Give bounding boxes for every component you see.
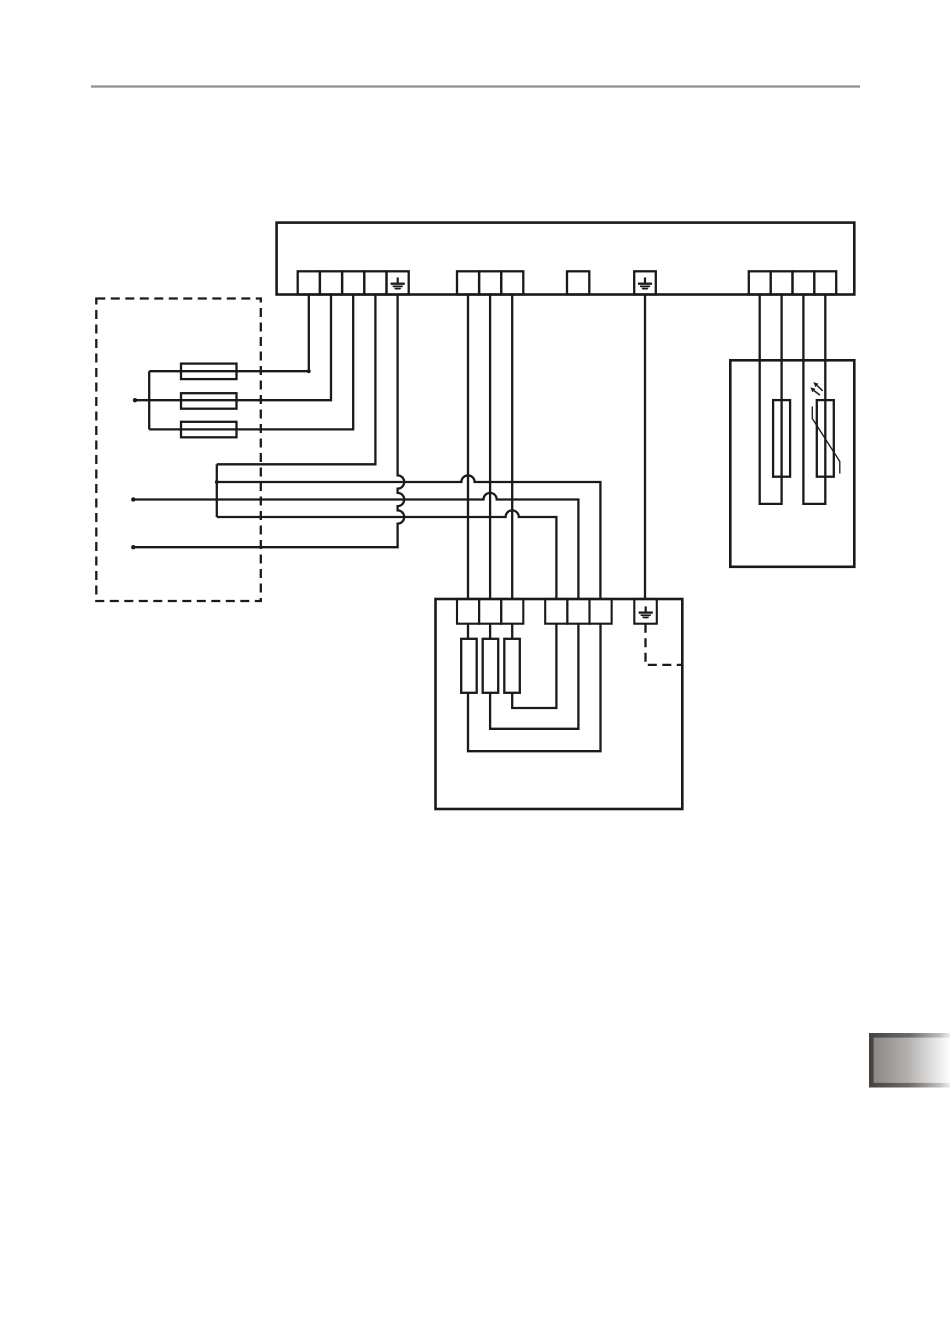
terminal 13 <box>793 271 815 294</box>
header rule <box>91 85 860 87</box>
motor unit enclosure <box>436 599 683 809</box>
node L input <box>133 398 137 402</box>
ground <box>639 606 653 618</box>
terminal M2 <box>479 599 501 624</box>
wire winding2 return <box>490 624 578 729</box>
terminal 2 <box>320 271 342 294</box>
wire chassis ground dashed <box>646 624 683 665</box>
arrow 2 <box>810 387 820 395</box>
wire terminal4 to bus bracket <box>217 295 376 465</box>
wire bracket vertical <box>216 464 218 517</box>
wire terminal1 to fuse F1 <box>149 295 309 372</box>
winding W2 <box>483 639 499 693</box>
terminal 7 <box>479 271 501 294</box>
ground <box>638 278 652 290</box>
node at fuse F1 corner <box>307 369 311 373</box>
terminal 3 <box>342 271 364 294</box>
node bus line 1 <box>215 480 219 484</box>
terminal M6 <box>590 599 612 624</box>
node N input <box>131 545 135 549</box>
fuse F3 <box>181 422 237 438</box>
fuse F1 <box>181 364 237 380</box>
wire winding1 return <box>468 624 601 752</box>
terminal 11 <box>749 271 771 294</box>
wire element stub 3 <box>511 624 513 639</box>
terminal M1 <box>457 599 479 624</box>
terminal M5 <box>567 599 589 624</box>
control board outline <box>277 223 855 295</box>
terminal M-PE <box>634 599 657 624</box>
terminal 12 <box>771 271 793 294</box>
terminal 5 PE <box>387 271 409 294</box>
wire terminal3 to fuse F3 <box>149 295 353 430</box>
wire winding3 return <box>512 624 556 708</box>
dashed enclosure (supply side) <box>96 299 260 602</box>
terminal M4 <box>545 599 567 624</box>
wire fuse common link <box>148 371 150 429</box>
wire element stub 1 <box>467 624 469 639</box>
terminal 6 <box>457 271 479 294</box>
terminal 9 <box>567 271 589 294</box>
heater element E1 <box>773 400 790 477</box>
winding W1 <box>461 639 477 693</box>
terminal M3 <box>501 599 523 624</box>
wire bus line 1 <box>217 475 601 599</box>
terminal 1 <box>298 271 320 294</box>
wire heater loop 2 <box>803 295 825 504</box>
wire terminal8 down <box>511 295 513 600</box>
terminal 10 PE <box>634 271 656 294</box>
terminal 4 <box>364 271 386 294</box>
wire terminal2 to fuse F2 <box>135 295 331 401</box>
heater element E2 <box>817 400 834 477</box>
heater unit enclosure <box>730 360 854 567</box>
wire bus line 2 <box>133 493 578 599</box>
terminal 14 <box>814 271 836 294</box>
page tab gradient <box>869 1033 950 1088</box>
wire terminal6 down <box>467 295 469 600</box>
thermistor stroke <box>812 407 840 474</box>
wire bus line 3 <box>217 510 557 599</box>
ground <box>391 278 405 290</box>
fuse F2 <box>181 393 237 409</box>
wire terminal7 down <box>489 295 491 600</box>
arrow 1 <box>813 382 822 391</box>
winding W3 <box>504 639 520 693</box>
wire heater loop 1 <box>760 295 782 504</box>
node line 2 input <box>131 497 135 501</box>
wire PE down <box>644 295 646 600</box>
wire element stub 2 <box>489 624 491 639</box>
wire terminal5 with hops to N input <box>133 295 404 548</box>
terminal 8 <box>501 271 523 294</box>
